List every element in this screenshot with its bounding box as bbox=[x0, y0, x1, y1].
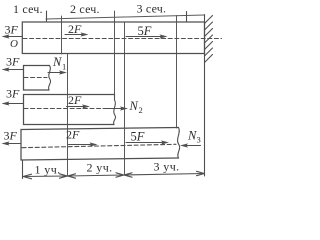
label "3 уч." bbox=[154, 160, 180, 174]
svg-text:3F: 3F bbox=[5, 23, 19, 37]
svg-text:3F: 3F bbox=[6, 55, 20, 69]
reference line (top) bbox=[46, 15, 205, 19]
force 2F label (bar 1) bbox=[68, 22, 82, 36]
svg-text:O: O bbox=[10, 38, 18, 50]
tick at left end of reference line bbox=[46, 11, 48, 21]
bar 4 wavy cut edge bbox=[178, 128, 180, 159]
internal force N3 arrow (pointing left into cut) bbox=[180, 143, 201, 147]
internal force N2 arrow bbox=[103, 106, 128, 110]
section line 3 (x=177) bbox=[176, 16, 178, 129]
dimension arrowhead at right end bbox=[197, 171, 205, 175]
svg-text:N: N bbox=[187, 129, 197, 143]
internal force N1 arrow bbox=[48, 70, 67, 74]
label "3 сеч." bbox=[137, 2, 167, 16]
svg-text:5F: 5F bbox=[131, 130, 145, 144]
force 3F label (bar 1) bbox=[5, 23, 19, 37]
dimension arrowhead at left end bbox=[23, 174, 32, 179]
force 2F arrow (bar 4) bbox=[69, 142, 98, 146]
svg-text:3 уч.: 3 уч. bbox=[154, 160, 180, 174]
bar 2 (cut piece, section 1) outline bbox=[24, 66, 50, 91]
bar 2 axis (dashed) bbox=[24, 77, 47, 79]
force 2F arrow (bar 3) bbox=[67, 104, 91, 108]
internal force N2 label bbox=[129, 99, 143, 115]
bar 3 wavy cut edge bbox=[114, 95, 116, 125]
force 5F arrow (bar 1) bbox=[126, 34, 168, 38]
force 3F arrow (bar 2) bbox=[2, 67, 24, 71]
dimension arrowheads pair at x=67.5 bbox=[60, 174, 76, 178]
svg-text:1 сеч.: 1 сеч. bbox=[13, 2, 43, 16]
force 5F label (bar 4) bbox=[131, 130, 145, 144]
force 3F arrow (bar 1) bbox=[2, 34, 23, 38]
bar 4 axis (dashed) bbox=[22, 144, 176, 147]
svg-text:N: N bbox=[52, 55, 62, 69]
left extension line (dimension) bbox=[22, 161, 24, 179]
force 3F label (bar 4) bbox=[4, 129, 18, 143]
force 5F label (bar 1) bbox=[138, 24, 152, 38]
label "2 уч." bbox=[87, 161, 113, 175]
bar 3 axis (dashed) bbox=[24, 108, 103, 110]
force 2F label (bar 3) bbox=[68, 93, 82, 107]
internal force N1 label bbox=[52, 55, 66, 72]
svg-text:2F: 2F bbox=[68, 22, 82, 36]
bar 4 (cut piece, section 3) outline bbox=[21, 128, 179, 161]
svg-text:3F: 3F bbox=[6, 87, 20, 101]
label "1 сеч." bbox=[13, 2, 43, 16]
svg-text:3F: 3F bbox=[4, 129, 18, 143]
force 3F arrow (bar 3) bbox=[2, 101, 24, 105]
svg-text:2: 2 bbox=[139, 105, 143, 115]
boundary line 1 уч./2 уч. (x=67.5) bbox=[67, 54, 69, 177]
svg-text:3 сеч.: 3 сеч. bbox=[137, 2, 167, 16]
section line 1 (x=62) bbox=[61, 16, 63, 54]
svg-text:2 сеч.: 2 сеч. bbox=[70, 2, 100, 16]
svg-text:1 уч.: 1 уч. bbox=[35, 163, 61, 177]
boundary line 2 уч./3 уч. (x=124) bbox=[124, 22, 126, 175]
force 2F label (bar 4) bbox=[66, 128, 80, 142]
svg-text:2 уч.: 2 уч. bbox=[87, 161, 113, 175]
svg-text:1: 1 bbox=[62, 62, 66, 72]
svg-text:5F: 5F bbox=[138, 24, 152, 38]
force 3F arrow (bar 4) bbox=[2, 141, 22, 145]
label "1 уч." bbox=[35, 163, 61, 177]
dimension line (bottom) bbox=[23, 174, 205, 177]
label "2 сеч." bbox=[70, 2, 100, 16]
force 3F label (bar 3) bbox=[6, 87, 20, 101]
bar 1 axis (dashed) bbox=[23, 38, 222, 40]
force 3F label (bar 2) bbox=[6, 55, 20, 69]
bar 3 (cut piece, section 2) outline bbox=[24, 95, 115, 125]
tick after "3 сеч." label bbox=[186, 12, 188, 23]
force 5F arrow (bar 4) bbox=[126, 140, 169, 144]
point O label bbox=[10, 38, 18, 50]
internal force N3 label bbox=[187, 129, 201, 145]
svg-text:2F: 2F bbox=[68, 93, 82, 107]
wall line bbox=[204, 15, 206, 177]
bar 2 wavy cut edge bbox=[48, 66, 50, 91]
svg-text:N: N bbox=[129, 99, 139, 113]
bar 1 (whole rod) outline bbox=[22, 22, 204, 54]
wall hatching bbox=[205, 16, 213, 63]
svg-text:2F: 2F bbox=[66, 128, 80, 142]
section line 2 (x=114.5) bbox=[114, 11, 116, 100]
dimension arrowheads pair at x=124 bbox=[116, 173, 132, 177]
force 2F arrow (bar 1) bbox=[65, 32, 89, 36]
svg-text:3: 3 bbox=[197, 135, 201, 145]
